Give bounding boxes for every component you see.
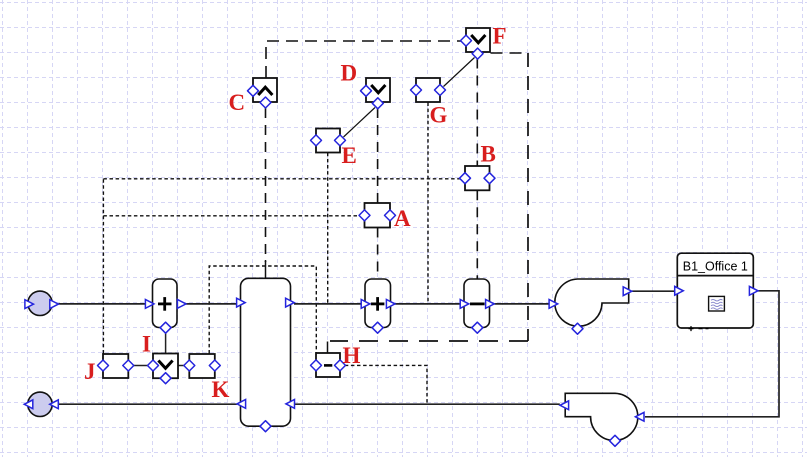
- block B: [460, 166, 496, 190]
- fan 1 (supply): [549, 279, 632, 334]
- label D: [341, 60, 358, 85]
- block A: [359, 203, 396, 228]
- svg-text:I: I: [142, 332, 151, 357]
- wire dotted bus to A-left: [103, 215, 360, 217]
- label H: [343, 343, 361, 368]
- wire E-right to D-bottom diagonal: [344, 108, 376, 138]
- svg-text:B: B: [481, 142, 496, 167]
- wire dotted H-right to return line: [345, 365, 427, 403]
- controller C (max): [248, 78, 278, 108]
- wire dashed C-bottom to mixer-top: [265, 108, 267, 279]
- label A: [394, 206, 411, 231]
- block G: [411, 78, 446, 102]
- wire dotted bus to B-left: [103, 178, 460, 180]
- wire office out down to fan2 inlet: [645, 291, 779, 417]
- wire fan2 outlet to mixer bottom-right: [294, 403, 560, 405]
- label I: [142, 332, 151, 357]
- svg-text:B1_Office 1: B1_Office 1: [683, 260, 748, 274]
- adder block plus2: [361, 279, 395, 333]
- building block B1_Office 1: [675, 253, 758, 331]
- wire dotted K-top to H-top: [209, 266, 316, 354]
- wire mixer to plus2: [294, 303, 362, 305]
- svg-text:J: J: [84, 359, 96, 384]
- label C: [229, 90, 246, 115]
- label F: [493, 24, 507, 49]
- wire dotted J-top bus vertical: [102, 179, 104, 354]
- block K: [184, 354, 221, 378]
- wire plus1-bottom to I-top: [165, 333, 167, 354]
- wire dashed F-bottom to B-top: [476, 59, 478, 167]
- wire fan1 outlet to office: [632, 290, 675, 292]
- controller I (min): [148, 354, 179, 384]
- wire dashed F-right down to H-top: [328, 53, 529, 353]
- wire G-right to F-bottom diagonal: [444, 58, 475, 87]
- adder block plus1: [145, 279, 186, 333]
- block E: [311, 129, 346, 153]
- wire dashed B-bottom to minus-top: [476, 190, 478, 278]
- wire dotted E-bottom down: [327, 153, 329, 303]
- svg-text:C: C: [229, 90, 246, 115]
- svg-text:G: G: [430, 103, 448, 128]
- controller D (min): [361, 78, 391, 109]
- wire minus to fan1: [494, 303, 549, 305]
- block H (minus): [311, 353, 346, 377]
- label J: [84, 359, 96, 384]
- wire mixer bottom-left to source2: [58, 403, 237, 405]
- label B: [481, 142, 496, 167]
- svg-text:A: A: [394, 206, 411, 231]
- label E: [342, 143, 357, 168]
- wire dashed D-bottom to A-top: [377, 108, 379, 203]
- label K: [212, 377, 230, 402]
- fan 2 (return): [560, 393, 644, 446]
- controller F (min): [461, 28, 491, 59]
- svg-text:E: E: [342, 143, 357, 168]
- block J: [98, 354, 134, 378]
- wire dashed C-top to F-left: [266, 41, 461, 78]
- subtractor block minus: [460, 279, 494, 333]
- wire I-right to K-left: [178, 365, 185, 367]
- svg-text:F: F: [493, 24, 507, 49]
- wire plus2 to minus: [395, 303, 461, 305]
- wire J-right to I-left: [133, 365, 149, 367]
- label G: [430, 103, 448, 128]
- wire dotted G-bottom down: [427, 103, 429, 303]
- tee/mixer big block: [237, 278, 295, 431]
- wire supply line source1 to plus1: [58, 303, 146, 305]
- wire plus1 to mixer: [186, 303, 237, 305]
- wire dashed A-bottom to plus2-top: [377, 228, 379, 279]
- svg-text:K: K: [212, 377, 230, 402]
- svg-text:H: H: [343, 343, 361, 368]
- svg-text:D: D: [341, 60, 358, 85]
- source circle 2: [24, 392, 58, 416]
- source circle 1: [25, 291, 59, 315]
